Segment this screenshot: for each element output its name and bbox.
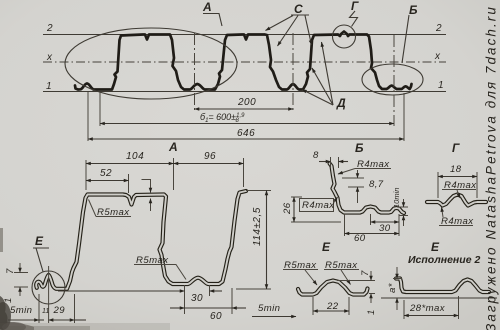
- svg-text:1: 1: [366, 309, 377, 315]
- svg-text:52: 52: [100, 168, 112, 179]
- svg-text:Исполнение 2: Исполнение 2: [408, 254, 480, 266]
- svg-text:А: А: [168, 140, 178, 154]
- svg-text:18: 18: [450, 164, 462, 175]
- svg-text:5min: 5min: [258, 303, 280, 314]
- svg-text:a*: a*: [387, 283, 398, 293]
- svg-text:5min: 5min: [10, 305, 32, 316]
- svg-text:2: 2: [46, 23, 53, 34]
- svg-text:1: 1: [46, 81, 52, 92]
- svg-text:200: 200: [237, 97, 256, 108]
- svg-text:10min: 10min: [392, 188, 401, 208]
- svg-text:28*max: 28*max: [409, 303, 446, 314]
- svg-text:Е: Е: [35, 234, 44, 248]
- svg-text:x: x: [434, 51, 441, 62]
- svg-text:Е: Е: [322, 240, 331, 254]
- svg-text:8: 8: [313, 150, 319, 161]
- svg-text:22: 22: [326, 301, 339, 312]
- svg-text:30: 30: [191, 293, 203, 304]
- svg-text:26: 26: [282, 202, 293, 215]
- svg-text:Г: Г: [452, 141, 460, 155]
- svg-text:2: 2: [435, 23, 442, 34]
- svg-text:Б: Б: [355, 141, 364, 155]
- svg-text:1: 1: [438, 80, 444, 91]
- svg-text:29: 29: [53, 305, 66, 316]
- svg-text:104: 104: [126, 151, 144, 162]
- svg-text:96: 96: [204, 151, 216, 162]
- svg-text:30: 30: [379, 223, 391, 234]
- svg-text:114±2,5: 114±2,5: [252, 207, 263, 246]
- svg-text:Д: Д: [336, 96, 346, 110]
- svg-text:x: x: [46, 52, 53, 63]
- svg-text:С: С: [294, 2, 303, 16]
- svg-text:11: 11: [42, 308, 49, 315]
- svg-text:Е: Е: [431, 240, 440, 254]
- svg-text:646: 646: [237, 128, 255, 139]
- svg-text:Загружено NatashaPetrova для 7: Загружено NatashaPetrova для 7dach.ru: [484, 5, 499, 330]
- svg-text:7: 7: [5, 268, 16, 274]
- svg-text:А: А: [202, 0, 212, 14]
- svg-text:7: 7: [360, 270, 371, 276]
- svg-text:60: 60: [354, 233, 366, 244]
- svg-text:8,7: 8,7: [369, 179, 384, 190]
- svg-text:R4max: R4max: [302, 200, 335, 211]
- svg-text:Б: Б: [409, 3, 418, 17]
- svg-text:60: 60: [210, 311, 222, 322]
